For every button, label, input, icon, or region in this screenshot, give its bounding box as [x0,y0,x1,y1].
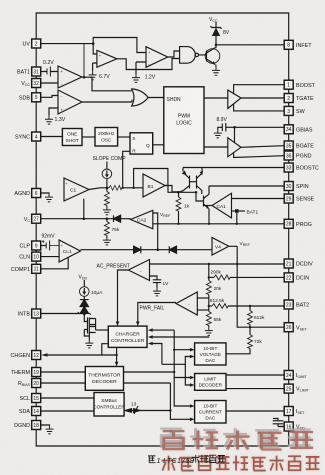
wire chip boundary top rail [36,13,289,40]
arrow PWR_FAIL output into controller [136,322,140,327]
ground with 1.3V ref for U7 [45,108,66,124]
wire CLN pin to CL1 [41,256,59,258]
op-amp U3 (1.2V comparator) [146,47,168,68]
wire CHGEN row with arrow into pin [47,354,117,356]
wire driver U8 input [204,97,228,99]
pin BAT2 23 (right) [284,300,309,309]
node divider top [208,276,210,278]
diode D6 schottky [78,307,91,315]
node UV junction [92,42,95,45]
wire UV bypass over comparators to U3 input [93,38,146,53]
arrow into voltage DAC 2 [190,355,195,359]
wire AC comparator output down to controller [118,270,129,323]
box SMBus CONTROLLER [93,393,125,417]
wire 65k tap to controller with arrow [152,336,209,338]
node PROG junctions [177,223,179,225]
wire controller bottom to thermistor decoder arrow [116,347,118,362]
wire SYNC pin to one shot [41,136,63,138]
op-amp B1 buffer [143,174,165,197]
wire limit decoder to ILIMIT pin [226,374,284,376]
pin GBIAS 34 (right) [284,125,313,134]
pin CLP 9 (left) [20,241,41,250]
wire right bus lower [288,416,290,423]
transistor Q2 mirror left [179,168,190,193]
resistor R1 below slope node [105,188,110,207]
box ONE SHOT [62,129,82,146]
watermark row1 ghost gray [160,428,310,447]
box 200kHz OSC [95,128,118,147]
arrow into limit decoder 2 [190,383,195,387]
wire decoder to bus vertical B3 [124,371,175,373]
op-amp CA2 [131,210,153,229]
wire current DAC to ISET pin [226,410,284,412]
pin BOOST 1 (right) [284,80,315,89]
transistor Q4 [196,186,209,224]
pin SDB 5 (left) [19,93,41,102]
op-amp V4 reference buffer [212,238,229,256]
wire tap to PWR_FAIL - input [197,309,209,311]
resistor 612k [248,306,265,327]
watermark row1 red [163,430,313,449]
wire BOOSTC row [183,167,284,169]
op-amp U7 (SDB comparator) [58,90,82,114]
pin PGND 36 (right) [284,151,311,160]
wire BAT1 node down to PROG row [236,213,238,224]
zener diode D1 8V [211,22,230,45]
node slope comp summing [106,187,109,190]
wire 8.9V node to GBIAS pin [235,127,285,129]
wire CA1 output to Q4 base [204,205,213,207]
wire COMP1 pin to CL1 underside [41,258,68,269]
box 10-BIT VOLTAGE DAC [195,343,226,365]
pin CLN 10 (left) [19,252,40,261]
wire U2 output to NAND input 2 [117,59,180,70]
box LIMIT DECODER [195,374,226,391]
capacitor 8.9V supply [217,117,235,132]
pin BGATE 35 (right) [284,141,314,150]
wire latch Q output to PWM logic [153,144,164,146]
resistor 72k [226,327,262,354]
ground Q1 emitter [212,65,220,76]
resistor 75k [105,219,120,237]
wire driver U8 to SW pin [234,104,285,111]
pin COMP1 11 (left) [11,264,41,273]
diode D3 on CL1 row [134,246,158,253]
current source I1 slope comp [102,162,112,188]
diode D5 [80,296,89,306]
wire VREF into CA2 upper input [153,213,158,250]
wire OR output to SHDN [148,97,164,99]
wire B3 to voltage DAC with arrow [174,349,190,351]
wire C1 output to slope comp node [89,188,107,190]
pin SCL 15 (left) [20,394,41,403]
wire CL1 output row [81,249,134,251]
node divider mid [208,305,210,307]
wire SCL pin to SMBus controller [41,397,94,399]
arrow CHGEN into pin [41,353,47,357]
pin V 16 (right) [284,422,305,431]
wire INTB pin row [41,313,85,315]
wire U3 output to NAND input 1 [168,51,180,57]
driver amp U8 (top gate) [228,90,241,109]
transistor Q3 mirror right [190,168,204,195]
wire U1 output down to OR gate input 1 [84,77,132,91]
wire DGND pin to ground [41,424,50,427]
battery 0.2V (BAT1 offset) [41,60,58,77]
wire U1 output up to UV node [82,44,93,78]
transistor Q1 [205,48,220,65]
wire B1v stub to voltage DAC [162,357,191,365]
mosfet M2 [84,326,95,337]
op-amp U2 (6.7V comparator) [97,50,117,67]
node R2/latch junction [122,187,124,189]
node B1 input junction [132,187,134,189]
wire VCC pin to comparator U1 - input [41,82,58,84]
resistor 290k [209,270,284,280]
pin DGND 18 (left) [14,421,41,430]
pin DCDIV 21 (right) [284,259,313,268]
wire 8.9V node down to driver U9 [234,127,236,142]
wire decoder to bus vertical B2 [124,382,171,384]
mosfet M1 [84,314,95,330]
node 8.9V junction [233,126,236,129]
wire B1 output to mirror row [165,186,172,193]
wire V4 output with VREF label [229,246,237,263]
node VC/75k junction [106,217,109,220]
wire driver U8 to BOOST pin [234,85,285,95]
pin V 25 (right) [284,384,309,393]
node BAT2 junction [249,305,251,307]
wire latch R input from slope comp node [123,151,130,188]
resistor 65k [206,306,221,327]
wire V4 input from CL1 row [211,249,213,251]
ground with 1.2V ref for U3 [132,62,156,82]
wire zener node to INFET pin [216,44,284,46]
ground below 65k [205,327,213,335]
wire VC node up to C1 lower edge [83,199,85,219]
wire DCDIV row [150,263,285,266]
box PWM LOGIC with SHDN input [164,87,204,154]
op-amp C1 error amp [64,178,89,201]
battery 92mV offset at CLP [41,234,59,251]
ground below R1 [103,206,111,214]
op-amp CL1 current limit [59,240,80,262]
wire NAND output to Q1 base [199,54,207,56]
pin CHGEN 12 (left) [11,351,41,360]
pin SDA 14 (left) [19,407,41,416]
resistor 20k [206,277,221,306]
resistor R2 horizontal to B1 [107,185,143,190]
wire SMBus data bus 13 [125,402,170,415]
wire stubs into limit decoder [174,364,190,385]
op-amp CA1 [212,193,232,218]
arrow into controller right 2 [148,335,153,339]
node mirror left [177,191,180,194]
box 10-BIT CURRENT DAC [195,401,226,424]
wire SPIN pin row [209,185,284,187]
node VSET junction [249,326,251,328]
diode D2 from CA2 to VC node [114,215,131,222]
wire U7 output to OR gate input 2 [82,100,132,102]
wire bus vertical B3 [174,330,190,406]
current source I2 10uA [80,280,104,296]
wire driver U9 to BGATE pin [241,146,284,148]
driver amp U9 (bottom gate) [228,138,241,157]
wire oscillator to latch S input [118,136,130,138]
arrow into controller right 1 [148,328,153,332]
wire bus vertical B2 [170,383,190,419]
wire B1 output to mirror node [165,186,180,192]
pin V 32 (left) [21,79,41,88]
wire driver U8 to TGATE pin [241,97,284,99]
wire SDA pin to SMBus controller [41,410,94,412]
wire divider tap down from DCDIV row [208,264,210,277]
node INFET junction [215,44,218,47]
comparator U11 power fail [176,292,197,315]
wire one shot to oscillator [82,136,95,138]
node INTB junction [83,313,86,316]
ground with 6.7V ref for U2 [89,63,111,80]
wire left bus to bottom rail [36,430,289,447]
pin SENSE 29 (right) [284,194,314,203]
arrow B3 into current DAC [190,404,195,408]
comparator U10 AC present [128,260,149,281]
pin DCIN 22 (right) [284,273,309,282]
capacitor VDD bypass [273,419,285,427]
box CHARGER CONTROLLER [108,326,147,347]
node VREF junction on CL1 row [156,248,159,251]
arrow B2 into current DAC [190,418,195,422]
wire right bus [288,49,290,406]
capacitor 1V ref for U10 [150,276,170,288]
box SR latch U5 [130,133,153,155]
pin INTB 13 (left) [18,309,41,318]
or-gate U6 shutdown [132,89,149,106]
wire left bus [35,48,37,421]
pin THERM 19 (left) [11,368,41,377]
arrow AC output into controller [116,322,120,327]
pin I 24 (right) [284,371,307,380]
arrow into limit decoder 1 [190,376,195,380]
wire THERM pin to decoder [41,371,86,373]
wire AGND pin to ground [41,192,49,195]
wire VC pin main node row [41,218,114,220]
wire mosfet drain to controller [96,329,109,331]
wire controller bottom-left to CHGEN row [102,344,109,355]
node BAT1 net square [232,209,259,215]
arrow into voltage DAC 1 [190,348,195,352]
node B2 junctions [169,409,171,411]
pin BAT1 31 (left) [17,67,41,76]
wire B1v to controller with arrow [152,344,162,365]
node B3 junctions [173,349,175,351]
wire tap to PWR_FAIL + input [197,297,209,299]
ground mosfet source [85,333,93,348]
wire PWR_FAIL output down to controller [138,303,176,323]
pin SYNC 4 (left) [15,132,41,141]
pin I 17 (right) [284,407,305,416]
wire UV pin to node row [41,43,93,45]
node VC/C1 junction [83,217,86,220]
pin PROG 28 (right) [284,219,312,228]
pin INFET 8 (right) [284,40,312,49]
ground below 75k [103,237,111,245]
pin AGND 6 (left) [14,189,40,198]
wire mirror node row [172,191,196,193]
wire limit decoder to VLIMIT pin [226,388,284,390]
pin V 26 (right) [284,323,307,332]
wire driver U9 to PGND pin [234,153,285,158]
pin R 20 (left) [18,379,41,388]
op-amp U1 (BAT1 comparator) [58,66,82,88]
pin TGATE 2 (right) [284,94,314,103]
box THERMISTOR DECODER [85,367,123,391]
diode D4 on CL1 row [158,246,212,253]
wire SENSE pin to CA1 input [232,198,285,200]
wire UV node down to comparator U2 + input [93,44,97,54]
node DCDIV junctions [208,263,210,265]
pin BOOSTC 33 (right) [284,163,319,172]
node CHGEN junction [115,354,117,356]
ground DGND [46,426,54,434]
node mirror right [195,191,198,194]
wire PROG row [153,223,284,225]
watermark halo (decorative) [161,430,319,470]
pin V 27 (left) [24,214,41,223]
wire B3 to controller with arrow [152,329,174,331]
caption figure title [148,455,225,465]
resistor 1k [176,192,190,224]
pin SPIN 30 (right) [284,182,308,191]
ground for 8.9V cap [214,130,222,138]
wire driver U9 input [204,146,228,148]
wire VSET row from V4 branch vertical [237,264,284,327]
NAND gate U4 [180,47,199,64]
arrow into thermistor decoder [115,362,119,367]
node U1 output junction [83,76,86,79]
ground 1V ref [153,288,161,296]
wire SDB pin to comparator U7 - input [41,96,58,98]
pin UV 2 (left) [23,39,41,48]
wire B1 feedback loop [134,169,168,188]
wire Q1 collector to INFET rail [215,45,218,48]
resistor 812.5k [209,298,284,309]
arrow into controller right 3 [148,342,153,346]
wire RBIAS pin to decoder [41,382,86,384]
ground AGND [45,194,53,202]
pin SW 3 (right) [284,106,305,115]
watermark row2 red [161,456,319,471]
